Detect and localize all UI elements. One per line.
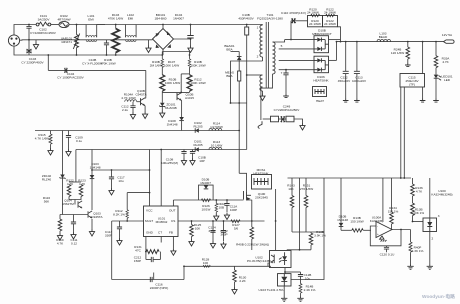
resistor R125	[190, 225, 194, 237]
wire aux rail 2	[76, 149, 247, 151]
ground	[171, 248, 176, 255]
resistor R40B	[250, 227, 254, 239]
ground	[66, 149, 71, 156]
svg-text:R128100: R128100	[202, 258, 210, 266]
wire	[125, 25, 127, 38]
svg-text:D1081N4148: D1081N4148	[167, 119, 178, 127]
svg-text:(TF): (TF)	[409, 82, 415, 86]
svg-text:MULT: MULT	[145, 219, 153, 223]
wire	[91, 150, 93, 176]
box a	[271, 116, 279, 122]
capacitor C120	[384, 247, 389, 249]
wire line L2	[178, 220, 265, 222]
wire pin 2	[160, 150, 162, 207]
wire drain entry	[239, 173, 246, 192]
ground	[343, 99, 349, 103]
wire	[59, 231, 61, 233]
wire tap4	[279, 69, 314, 71]
wire stub	[48, 69, 146, 71]
ground	[221, 242, 226, 249]
wire pin CT	[160, 237, 162, 243]
capacitor C128	[298, 275, 303, 277]
svg-text:R13147C: R13147C	[134, 245, 142, 253]
resistor R137	[352, 229, 363, 232]
svg-text:R1194.7K: R1194.7K	[56, 238, 64, 246]
connector +12V output	[444, 40, 455, 43]
transformer aux winding	[260, 75, 263, 91]
wire	[407, 59, 409, 63]
resistor R138	[411, 203, 415, 216]
wire aux column down	[246, 71, 248, 150]
wire	[279, 118, 282, 120]
svg-text:7: 7	[281, 71, 283, 75]
wire	[189, 67, 191, 74]
wire	[292, 231, 324, 233]
svg-text:C11710u: C11710u	[117, 176, 124, 184]
svg-text:C1162200P (NPO): C1162200P (NPO)	[150, 283, 169, 291]
wire	[386, 246, 388, 248]
resistor R111	[187, 75, 192, 91]
wire	[291, 20, 293, 22]
junction	[145, 251, 147, 253]
wire Q103 emitter	[91, 219, 93, 229]
svg-text:C1122.2u: C1122.2u	[121, 105, 128, 113]
transistor Q101	[141, 98, 146, 106]
wire line L3	[184, 265, 271, 267]
wire line S	[173, 199, 243, 201]
resistor R112	[126, 210, 129, 219]
wire clamp loop	[199, 185, 214, 200]
wire	[212, 221, 214, 231]
svg-text:R134150 1%: R134150 1%	[388, 206, 399, 214]
capacitor C109	[68, 131, 70, 136]
wire heatsink to opto	[275, 189, 277, 221]
junction	[299, 249, 301, 251]
wire middle AC line	[20, 39, 153, 41]
svg-text:Q1002SK2645: Q1002SK2645	[255, 192, 268, 200]
junction	[47, 54, 49, 56]
wire	[336, 42, 338, 61]
resistor R120	[311, 14, 320, 17]
svg-text:R10B470K 1/6W: R10B470K 1/6W	[100, 58, 115, 65]
svg-text:C104CY 1000P/AC250V: C104CY 1000P/AC250V	[57, 72, 84, 80]
zener ZD101	[159, 103, 165, 107]
opto internals	[271, 252, 287, 265]
resistor R132	[299, 284, 302, 294]
capacitor C117	[111, 170, 113, 177]
capacitor C124	[210, 231, 215, 233]
resistor R122 box	[323, 16, 338, 27]
wire to ref	[413, 221, 424, 223]
wire	[391, 224, 393, 230]
resistor R119	[58, 219, 62, 231]
resistor clamp box	[238, 71, 241, 81]
wire ZD102 column	[62, 131, 64, 175]
wire line A	[92, 169, 150, 171]
svg-text:C212150P: C212150P	[134, 256, 142, 264]
wire	[126, 218, 128, 221]
wire	[191, 237, 193, 240]
wire	[146, 259, 151, 261]
svg-text:D10B1N4148: D10B1N4148	[337, 215, 348, 223]
box b	[286, 116, 294, 122]
svg-text:D1041N4007: D1041N4007	[173, 13, 184, 21]
capacitor C105	[106, 40, 108, 43]
wire L101 to R103	[97, 24, 116, 26]
wire	[263, 118, 271, 120]
ground	[160, 111, 165, 118]
diode D101	[195, 147, 199, 152]
wire	[238, 52, 240, 57]
svg-text:CS: CS	[171, 219, 175, 223]
svg-text:C103CY 2200P/400V: C103CY 2200P/400V	[21, 57, 44, 65]
transistor Q100 MOSFET	[244, 191, 252, 201]
svg-text:R14310K: R14310K	[287, 184, 295, 192]
junction	[238, 102, 240, 104]
svg-text:C1110.12: C1110.12	[71, 238, 78, 246]
wire Q101 collector	[145, 70, 147, 98]
wire	[161, 67, 163, 74]
wire	[223, 221, 225, 231]
wire	[294, 119, 303, 123]
svg-text:Q103C945TA: Q103C945TA	[91, 212, 103, 220]
svg-text:R103470K 1/6W: R103470K 1/6W	[108, 13, 123, 21]
wire	[144, 106, 146, 112]
wire pin MULT	[112, 220, 144, 222]
svg-text:R1024R7/5AW: R1024R7/5AW	[57, 14, 70, 22]
wire	[181, 101, 183, 118]
ground	[300, 123, 305, 130]
heatsink Q100	[252, 175, 272, 190]
ground	[224, 213, 229, 220]
diode D106 upper	[314, 36, 329, 53]
wire	[251, 239, 253, 250]
ground	[214, 214, 219, 221]
wire	[294, 20, 307, 22]
svg-text:OUT: OUT	[169, 209, 176, 213]
svg-text:R10B100K 1/6W: R10B100K 1/6W	[165, 78, 180, 86]
wire	[50, 131, 52, 135]
diode D104 clamp	[237, 57, 242, 61]
svg-text:Q10BA1015: Q10BA1015	[185, 93, 194, 101]
ground	[143, 112, 148, 119]
wire clamp to drain	[238, 81, 240, 173]
wire tap1	[273, 40, 285, 42]
wire bridge DC out	[174, 38, 191, 40]
zener ZD102	[60, 175, 66, 179]
wire	[189, 52, 191, 59]
wire	[300, 272, 302, 275]
svg-text:C1131000u16V: C1131000u16V	[352, 76, 367, 84]
resistor R103	[112, 29, 119, 53]
wire bridge top	[162, 25, 164, 29]
op-amp U100A	[376, 222, 392, 238]
svg-text:R1275/6: R1275/6	[232, 223, 240, 231]
svg-text:C10B450P/400V: C10B450P/400V	[238, 13, 254, 21]
resistor R136	[411, 184, 415, 196]
svg-text:R104A4.7K 1/6W: R104A4.7K 1/6W	[121, 93, 136, 101]
svg-text:3: 3	[438, 214, 440, 218]
wire aux top	[247, 74, 263, 76]
svg-text:5: 5	[281, 44, 283, 48]
LED LED101	[434, 75, 439, 79]
wire	[231, 51, 240, 53]
inductor R114	[209, 128, 222, 130]
wire	[407, 42, 409, 47]
junction	[111, 169, 113, 171]
junction	[238, 130, 240, 132]
fusible resistor R102	[59, 21, 69, 27]
ground	[297, 297, 303, 302]
svg-text:ZD102RLZ40: ZD102RLZ40	[42, 174, 52, 182]
wire	[391, 178, 393, 212]
resistor R151	[304, 196, 308, 208]
wire sense line a	[400, 87, 402, 178]
capacitor C110b	[192, 150, 194, 152]
wire	[153, 259, 160, 261]
wire DC+ to T101	[163, 24, 263, 26]
svg-text:R151270 1/6W: R151270 1/6W	[300, 184, 313, 192]
junction	[91, 169, 93, 171]
transistor Q103	[88, 211, 92, 218]
wire	[246, 35, 248, 71]
svg-text:R10B100K 1/6W: R10B100K 1/6W	[190, 60, 205, 68]
svg-text:R1154.7K 1/6W: R1154.7K 1/6W	[35, 133, 50, 141]
svg-text:R11656K: R11656K	[43, 196, 50, 204]
choke L101 winding b	[86, 40, 97, 42]
wire clamp return	[231, 102, 247, 104]
capacitor C113	[356, 42, 358, 72]
svg-text:C113330P: C113330P	[105, 230, 112, 238]
svg-text:C1090.1u: C1090.1u	[75, 136, 83, 144]
junction	[160, 149, 162, 151]
wire	[246, 25, 248, 28]
svg-text:U100KA324M(324B): U100KA324M(324B)	[431, 189, 452, 197]
svg-text:Woodyun·电路: Woodyun·电路	[422, 293, 455, 300]
junction	[290, 39, 292, 41]
wire	[159, 252, 161, 260]
transistor Q104	[78, 201, 82, 208]
inductor L103	[377, 39, 391, 41]
shunt regulator U103	[278, 274, 292, 286]
ground	[260, 94, 265, 101]
wire	[215, 200, 217, 204]
wire	[145, 252, 147, 260]
svg-text:R112100K 1/6W: R112100K 1/6W	[190, 78, 205, 86]
transistor Q102	[177, 93, 182, 101]
wire D106 out	[329, 39, 341, 41]
wire tap2	[279, 48, 314, 50]
diode D106 lower	[314, 56, 329, 72]
wire bridge bottom	[162, 50, 164, 56]
resistor R106	[161, 59, 164, 68]
wire	[91, 179, 93, 210]
ground	[433, 99, 439, 103]
wire	[238, 60, 240, 71]
diodes D106 lower	[314, 58, 329, 71]
wire	[291, 208, 293, 233]
wire	[183, 266, 185, 279]
wire pin GND	[145, 237, 147, 252]
diode D107	[339, 223, 344, 227]
ground	[427, 265, 433, 270]
wire D106 out2	[329, 59, 337, 61]
svg-text:C11A100P: C11A100P	[230, 205, 238, 213]
ground	[57, 233, 62, 240]
junction	[246, 24, 248, 26]
svg-text:R12024 1WW: R12024 1WW	[307, 7, 319, 14]
resistor R115	[49, 134, 52, 144]
ground	[189, 239, 194, 246]
capacitor C110a	[183, 150, 185, 152]
varistor VAR101	[75, 35, 79, 48]
wire	[363, 229, 371, 231]
svg-text:D101RL205: D101RL205	[193, 140, 202, 148]
junction	[246, 74, 248, 76]
svg-text:FB: FB	[169, 231, 173, 235]
wire opto emitter to U103	[284, 268, 286, 274]
svg-text:D106HEATSINK: D106HEATSINK	[313, 75, 329, 83]
wire pin FB	[172, 237, 174, 249]
resistor R105	[160, 75, 165, 91]
wire	[161, 52, 163, 59]
wire R102 to L101	[69, 24, 105, 26]
wire tap1b	[285, 39, 314, 41]
svg-text:R11310 1/6W: R11310 1/6W	[211, 140, 223, 148]
svg-text:R12610/1W: R12610/1W	[202, 204, 211, 212]
wire	[161, 91, 163, 92]
wire	[284, 118, 286, 120]
svg-text:L101EMI: L101EMI	[88, 14, 95, 22]
wire	[412, 216, 414, 222]
wire	[50, 144, 52, 148]
wire	[429, 232, 431, 265]
svg-text:R24B120 1/6W: R24B120 1/6W	[391, 48, 404, 56]
svg-text:VAR10110N471: VAR10110N471	[61, 37, 73, 45]
svg-text:D1031N4148: D1031N4148	[90, 162, 101, 170]
capacitor C249 X	[281, 116, 285, 122]
resistor R118	[79, 185, 83, 197]
wire	[386, 249, 388, 252]
ground	[281, 297, 287, 302]
wire pin DRV	[172, 200, 174, 206]
wire secondary bus	[290, 21, 292, 40]
capacitor C212	[151, 257, 153, 262]
ground	[405, 63, 411, 67]
capacitor C106	[190, 25, 192, 36]
svg-text:R14B2.4K 1%: R14B2.4K 1%	[304, 285, 316, 293]
wire	[144, 97, 147, 99]
wire secondary return	[261, 74, 273, 120]
fuse F101	[36, 23, 39, 26]
capacitor C111	[71, 222, 76, 224]
resistor R117	[67, 185, 71, 197]
wire ladder tie	[181, 73, 189, 75]
ground chassis	[33, 42, 38, 49]
resistor R126	[201, 199, 210, 202]
svg-text:-: -	[377, 224, 378, 228]
diode D108	[179, 117, 184, 121]
wire	[305, 178, 307, 196]
junction	[285, 69, 287, 71]
hook左	[258, 121, 262, 128]
wire	[341, 229, 352, 231]
wire	[435, 42, 437, 56]
svg-text:U103 TL431 2.5%: U103 TL431 2.5%	[259, 288, 284, 292]
wire	[422, 87, 424, 99]
wire drain line	[231, 61, 263, 103]
transformer core	[265, 22, 267, 88]
svg-text:MC8842: MC8842	[156, 220, 168, 224]
svg-text:U102PC-817B(C123B): U102PC-817B(C123B)	[247, 256, 271, 264]
capacitor C116	[150, 277, 152, 282]
wire	[310, 245, 312, 250]
wire output	[392, 229, 411, 231]
svg-text:F1013A/250V: F1013A/250V	[38, 14, 51, 22]
wire	[262, 57, 264, 61]
capacitor C103	[28, 40, 30, 50]
wire	[283, 286, 285, 297]
svg-text:C110 4700P(1KV): C110 4700P(1KV)	[281, 11, 306, 15]
ground	[210, 241, 215, 248]
resistor R143	[290, 196, 294, 208]
svg-text:R1364.7K: R1364.7K	[415, 186, 423, 194]
wire inv input	[382, 178, 384, 222]
ground	[188, 46, 193, 53]
svg-text:R10B2M 1/6W: R10B2M 1/6W	[150, 60, 162, 68]
svg-text:R40P3.3K 1%: R40P3.3K 1%	[412, 246, 424, 254]
inductor R113	[209, 147, 222, 149]
IC U101	[144, 206, 179, 237]
svg-text:BD1011B4-B60: BD1011B4-B60	[154, 13, 166, 21]
wire	[119, 221, 121, 227]
wire	[189, 91, 191, 92]
ground	[130, 112, 135, 119]
svg-text:R1128.2K 1%: R1128.2K 1%	[113, 209, 125, 217]
wire source	[247, 199, 252, 200]
wire feedback rail	[288, 177, 412, 179]
wire opto collector up	[299, 178, 301, 250]
svg-text:1: 1	[257, 26, 259, 30]
wire ref to divider	[291, 178, 324, 280]
junction	[412, 221, 414, 223]
resistor R109	[188, 59, 191, 68]
wire	[69, 197, 81, 200]
wire	[59, 215, 61, 220]
svg-text:R12510K: R12510K	[194, 223, 202, 231]
wire	[291, 178, 293, 196]
capacitor C115 box	[400, 74, 425, 88]
svg-text:R107100K 1/6W: R107100K 1/6W	[164, 60, 179, 68]
wire ladder top	[162, 51, 189, 53]
wire aux rail 1	[35, 130, 239, 132]
ground	[109, 188, 114, 195]
svg-text:R1141/2 5WW: R1141/2 5WW	[210, 122, 223, 130]
wire	[435, 68, 437, 75]
wire sense line b	[403, 87, 405, 178]
ground	[146, 46, 151, 53]
wire	[422, 42, 424, 74]
wire pin VCC	[149, 150, 151, 207]
inductor R104	[125, 100, 137, 102]
resistor R40A	[215, 204, 218, 213]
transformer T101 primary	[260, 25, 263, 41]
wire top rail to bridge	[136, 24, 163, 26]
svg-text:2: 2	[257, 55, 259, 59]
wire	[340, 178, 342, 223]
wire	[135, 25, 137, 38]
junction	[400, 229, 402, 231]
